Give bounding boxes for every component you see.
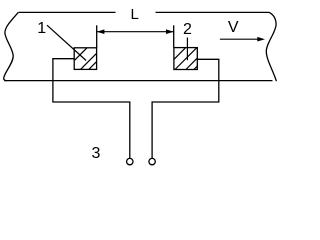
svg-text:2: 2 [183,21,192,38]
terminal circle left [127,158,133,164]
dimension extension line right [173,25,175,47]
leader line from label 1 to sensor 1 [47,25,86,60]
dimension arrowhead right [166,29,174,34]
velocity arrow V [220,38,259,40]
svg-text:V: V [228,19,239,36]
svg-text:1: 1 [37,20,46,37]
sensor 1 hatching [75,48,97,70]
wire from sensor 2 to terminal [152,59,219,158]
right break line [266,12,276,81]
dimension extension line left [96,25,98,48]
svg-text:3: 3 [92,145,101,162]
wire from sensor 1 to terminal [53,59,130,159]
sensor 2 hatching [174,48,197,70]
velocity arrowhead [257,37,265,42]
left break line [4,12,19,80]
dimension line L [97,31,174,33]
pipe top wall left segment [19,11,116,13]
terminal circle right [149,158,155,164]
leader line from label 2 to sensor 2 [186,38,188,61]
svg-text:L: L [131,6,139,23]
pipe bottom wall [4,80,272,82]
sensor 1 body [74,48,96,70]
pipe top wall right segment [156,11,270,13]
sensor 2 body [174,48,197,70]
dimension arrowhead left [97,29,105,34]
